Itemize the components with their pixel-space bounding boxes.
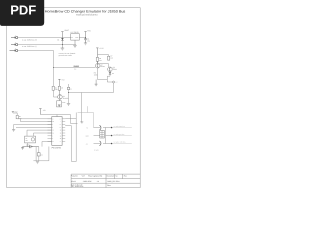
svg-text:GND: GND: [62, 102, 65, 104]
isolator box with ground: [57, 101, 62, 107]
wire row2 GND: [18, 44, 76, 46]
resistor R3: [96, 57, 98, 61]
transistor Q1: [58, 90, 63, 99]
svg-text:TX: TX: [86, 127, 88, 129]
svg-text:Protel for: Protel for: [71, 175, 78, 178]
wire output down and left: [69, 83, 114, 122]
wire +5V rail to IC: [41, 115, 71, 117]
IC pins left: [48, 119, 52, 142]
svg-text:18: 18: [52, 121, 54, 123]
wire U1 out: [79, 37, 85, 39]
svg-text:17: 17: [52, 118, 54, 120]
svg-text:File: J1850.SCH: File: J1850.SCH: [71, 185, 84, 188]
svg-text:ground near radio: ground near radio: [59, 54, 72, 57]
wire row3 vertical: [53, 51, 55, 87]
wire Q2 collector to Q3: [99, 64, 109, 67]
ground under C1: [84, 43, 87, 45]
svg-text:PDF: PDF: [10, 3, 36, 18]
capacitor C2 on +5 branch: [68, 84, 70, 103]
IC U2 PIC16F84: [52, 117, 62, 146]
wire stub connector row1: [94, 127, 101, 129]
output row2: [106, 135, 112, 137]
wire bus feed: [78, 106, 94, 127]
resistor R5: [58, 86, 60, 90]
title block text: [71, 175, 127, 189]
ground pin of U1: [74, 40, 76, 44]
svg-text:J1850 CDC: J1850 CDC: [83, 180, 93, 183]
svg-text:1.0: 1.0: [97, 180, 99, 183]
svg-text:Document: Document: [107, 175, 115, 178]
ground symbol bottom: [36, 162, 39, 164]
output row3: [103, 143, 111, 145]
svg-text:J1850_PIC.SCH: J1850_PIC.SCH: [107, 180, 120, 183]
ground rail bottom: [33, 147, 49, 161]
wire pin row4: [16, 126, 52, 128]
resistor R4: [52, 86, 54, 90]
svg-text:14: 14: [52, 141, 54, 143]
capacitor C1: [84, 37, 87, 43]
svg-text:Sheet captured file: Sheet captured file: [88, 175, 102, 178]
svg-text:C2: C2: [70, 88, 72, 90]
wire top rail to R7: [98, 55, 109, 57]
power flag VBAT: [61, 32, 63, 38]
connector J1 pin2: [11, 44, 15, 45]
output port circle: [113, 81, 115, 83]
wire D2 to output port: [107, 74, 112, 82]
svg-text:Files: Files: [107, 184, 111, 187]
title block outline: [71, 174, 140, 188]
ground foot at x81.8: [80, 122, 83, 123]
regulator U1 78L05: [71, 34, 80, 40]
svg-text:11: 11: [60, 133, 62, 135]
svg-text:15: 15: [52, 133, 54, 135]
IC pin numbers: [52, 118, 61, 143]
wire frame border of schematic sheet: [7, 8, 141, 188]
svg-text:U1 78L05: U1 78L05: [70, 31, 78, 34]
ground symbol left: [12, 130, 15, 132]
wire rail corner down: [71, 115, 78, 124]
connector J1 pin1: [11, 37, 15, 38]
svg-text:10: 10: [60, 130, 62, 132]
capacitor C2: [21, 145, 39, 149]
svg-text:V2.7: V2.7: [82, 175, 86, 178]
power flag +5V (Q1): [58, 79, 60, 86]
svg-text:bus: bus: [74, 69, 77, 71]
transistor Q2: [95, 61, 100, 68]
svg-text:D1: D1: [57, 39, 59, 42]
PDF badge: [0, 0, 44, 26]
wire stub connector row2: [94, 135, 100, 137]
power flag +5V (R1): [12, 112, 14, 113]
ground under C2: [67, 103, 70, 105]
svg-text:PIC16F84: PIC16F84: [52, 146, 62, 149]
crystal X1: [25, 136, 36, 143]
svg-text:13: 13: [60, 138, 62, 140]
sheet background: [0, 0, 149, 198]
connector J2 body: [100, 130, 105, 138]
svg-text:+12: +12: [86, 143, 89, 145]
connector J2 plug row1: [100, 125, 102, 130]
wire osc2: [34, 133, 52, 136]
svg-text:J1850: J1850: [73, 65, 79, 68]
svg-text:www.qsl.net/cdcemu: www.qsl.net/cdcemu: [76, 14, 98, 17]
diode D2: [109, 71, 111, 74]
ground symbol under U1: [73, 45, 77, 47]
transistor Q3: [108, 67, 113, 72]
svg-text:to car J1850 bus (-): to car J1850 bus (-): [22, 45, 37, 48]
wire row1 J1850+: [18, 37, 71, 39]
wire IC right pin1 to connector: [65, 113, 76, 162]
wire osc1: [27, 130, 52, 136]
svg-text:12: 12: [60, 135, 62, 137]
wire row3 J1850-: [18, 50, 54, 52]
output row1: [103, 127, 111, 129]
connector bus vertical: [105, 128, 107, 144]
svg-text:to radio: to radio: [94, 150, 99, 152]
IC pins right: [62, 119, 65, 142]
svg-text:to car J1850 bus (+): to car J1850 bus (+): [22, 38, 37, 41]
connector J2 plug row3: [100, 141, 102, 146]
power flag +5V: [84, 32, 86, 38]
svg-text:16: 16: [52, 130, 54, 132]
wire osc bottom: [28, 142, 52, 147]
resistor R7: [108, 56, 110, 60]
wire C2 verticals: [36, 147, 39, 161]
resistor R1: [16, 115, 18, 118]
wire +5V to R1: [13, 113, 17, 115]
svg-text:8.5x11: 8.5x11: [71, 180, 76, 183]
capacitor C3: [37, 153, 40, 156]
svg-text:No: No: [115, 175, 117, 178]
connector J1 pin3: [10, 50, 16, 51]
wire Q1 emitter down: [58, 99, 60, 101]
svg-text:VBAT: VBAT: [64, 29, 70, 32]
wire gnd to pin row3: [14, 125, 52, 130]
wire IC right pin2 to connector: [65, 126, 76, 162]
wire Q2 emitter: [98, 68, 108, 80]
svg-text:Rev: Rev: [124, 175, 127, 178]
wire stub connector row3: [94, 143, 101, 145]
wire R1 to pin: [17, 119, 52, 122]
power flag +12V: [96, 48, 98, 64]
diode D1: [61, 38, 64, 46]
wire R4 to Q1 base: [54, 90, 58, 97]
ground under Q2: [95, 80, 98, 86]
wire base line: [54, 67, 96, 69]
ground below D1: [61, 45, 65, 51]
junction on +5 branch: [68, 92, 69, 93]
power flag +5V (IC): [39, 109, 41, 115]
svg-text:GND: GND: [86, 135, 89, 137]
